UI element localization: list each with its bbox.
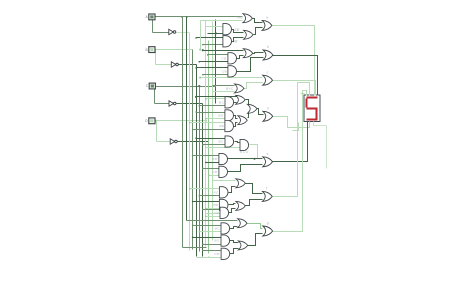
svg-text:c: c [267,70,269,74]
svg-text:e: e [267,152,269,156]
svg-text:f: f [266,187,267,191]
svg-text:B'C: B'C [215,227,221,231]
svg-text:d: d [267,107,269,111]
svg-text:C'B: C'B [222,69,227,73]
svg-text:C'D': C'D' [214,252,220,256]
svg-text:C'B': C'B' [221,56,227,60]
svg-text:A'B: A'B [219,124,224,128]
svg-text:B'D': B'D' [218,114,224,118]
svg-text:B'D': B'D' [212,157,218,161]
svg-text:C'D: C'D [214,211,220,215]
svg-text:C'D': C'D' [212,170,218,174]
svg-text:A'C: A'C [213,190,219,194]
svg-text:B'D: B'D [213,203,219,207]
svg-text:B'C': B'C' [218,140,224,144]
svg-text:g: g [267,221,269,225]
svg-text:B: B [145,48,147,52]
svg-text:a: a [266,16,268,20]
svg-text:B'+C: B'+C [226,87,234,91]
svg-text:b: b [267,45,269,49]
svg-text:A+B: A+B [237,15,243,19]
svg-text:B'C: B'C [219,100,225,104]
svg-text:A’B’: A’B’ [234,28,240,32]
svg-text:B'C': B'C' [214,239,220,243]
